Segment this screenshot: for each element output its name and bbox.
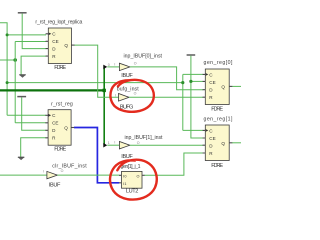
bus inp[1:0] horizontal — [0, 89, 104, 91]
wire inp[0] tap to IBUF — [107, 66, 119, 68]
svg-text:O: O — [137, 141, 140, 145]
svg-text:O: O — [61, 169, 64, 173]
svg-text:FDRE: FDRE — [54, 146, 66, 152]
node junction clk C1 — [6, 33, 9, 36]
flip-flop gen_reg[0] — [203, 69, 233, 105]
wire clk long horizontal — [7, 82, 183, 84]
svg-text:CE: CE — [52, 121, 58, 126]
svg-text:inp_IBUF[1]_inst: inp_IBUF[1]_inst — [125, 135, 164, 141]
bus tap arrow inp[0] — [103, 65, 107, 70]
wire Q of r_rst_reg (blue net) to I1 of LUT2 — [74, 128, 119, 183]
wire clk branch to C of r_rst_reg_lopt_replica — [7, 34, 46, 36]
wire R of r_rst_reg_lopt_replica to ground — [21, 56, 46, 75]
node bus junction — [103, 89, 106, 92]
wire Q of gen_reg[1] to right edge — [232, 142, 241, 144]
node junction clk long — [6, 81, 9, 84]
wire inp[1] tap to IBUF — [107, 144, 119, 146]
wire R of r_rst_reg to ground — [21, 138, 46, 157]
wire inp_IBUF[1] to D of gen_reg[1] — [130, 144, 203, 146]
svg-text:O: O — [137, 174, 140, 178]
node junction enable — [13, 58, 17, 62]
wire VCC3 vertical — [191, 56, 203, 138]
svg-text:I0: I0 — [123, 174, 126, 178]
wire clr entry left edge — [0, 174, 47, 176]
wire enable vertical — [14, 42, 16, 123]
wire Q of gen_reg[0] to right edge — [232, 85, 241, 87]
lut gen[1]_i_1 LUT2 — [119, 171, 145, 188]
node junction clk right — [181, 81, 184, 84]
wire clk to C of gen_reg[0] — [183, 73, 203, 75]
svg-text:CE: CE — [209, 80, 215, 85]
svg-text:I1: I1 — [123, 182, 126, 186]
svg-text:O: O — [134, 62, 137, 66]
svg-text:Q: Q — [64, 126, 68, 131]
buffer clr_IBUF_inst — [47, 171, 58, 178]
wire clk entry left edge — [0, 23, 7, 116]
wire VCC3 to CE of gen_reg[0] — [191, 80, 203, 82]
node junction VCC3 CE — [189, 80, 192, 83]
power VCC3 — [187, 54, 196, 56]
ground GND2 — [18, 157, 25, 160]
wire VCC1 to D of r_rst_reg_lopt_replica — [22, 14, 46, 49]
svg-text:I: I — [114, 141, 115, 145]
wire clk to C of gen_reg[1] — [183, 129, 203, 131]
svg-text:IBUF: IBUF — [121, 73, 133, 79]
flip-flop gen_reg[1] — [203, 125, 233, 161]
svg-text:I: I — [114, 62, 115, 66]
svg-text:IBUF: IBUF — [49, 182, 61, 188]
wire enable entry left edge — [0, 59, 15, 61]
annotation red circle around gen[1]_i_1 — [110, 160, 157, 200]
flip-flop r_rst_reg — [45, 110, 74, 146]
wire enable to CE of r_rst_reg_lopt_replica — [15, 41, 46, 43]
svg-text:1: 1 — [108, 141, 110, 145]
wire VCC2 to D of r_rst_reg — [22, 97, 46, 130]
power VCC1 — [18, 12, 27, 14]
svg-text:I: I — [115, 93, 116, 97]
svg-text:FDRE: FDRE — [211, 163, 223, 169]
ground GND1 — [19, 75, 26, 78]
buffer bufg_inst — [119, 94, 130, 102]
svg-text:0: 0 — [108, 63, 110, 67]
svg-text:FDRE: FDRE — [211, 107, 223, 113]
wire Q of r_rst_reg_lopt_replica to BUFG input — [74, 45, 119, 97]
wire clr_IBUF to I0 of LUT2 — [57, 174, 119, 176]
svg-text:clr_IBUF_inst: clr_IBUF_inst — [52, 163, 87, 169]
flip-flop r_rst_reg_lopt_replica — [46, 28, 75, 64]
svg-text:LUT2: LUT2 — [126, 189, 138, 195]
svg-text:r_rst_reg: r_rst_reg — [51, 101, 73, 107]
svg-text:I: I — [43, 170, 44, 174]
bus tap arrow inp[1] — [103, 143, 107, 148]
wire BUFG output to R of gen_reg[0] — [129, 96, 203, 98]
bus inp[1:0] vertical — [103, 67, 105, 146]
buffer inp_IBUF[0]_inst — [119, 63, 129, 70]
wire enable to CE of r_rst_reg — [15, 122, 46, 124]
wire inp_IBUF[0] to D of gen_reg[0] — [130, 67, 203, 90]
svg-text:Q: Q — [64, 43, 68, 48]
wire clk right vertical — [182, 74, 184, 130]
svg-text:Q: Q — [221, 84, 225, 89]
power VCC2 — [17, 96, 26, 98]
wire clk into C of r_rst_reg — [7, 114, 46, 116]
svg-text:Q: Q — [221, 141, 225, 146]
buffer inp_IBUF[1]_inst — [119, 142, 129, 149]
svg-text:O: O — [134, 91, 137, 95]
svg-text:inp_IBUF[0]_inst: inp_IBUF[0]_inst — [124, 53, 163, 59]
svg-text:gen_reg[0]: gen_reg[0] — [204, 60, 233, 66]
svg-text:gen_reg[1]: gen_reg[1] — [204, 116, 233, 122]
svg-text:r_rst_reg_lopt_replica: r_rst_reg_lopt_replica — [35, 19, 82, 25]
annotation red circle around bufg_inst — [110, 80, 153, 112]
svg-text:CE: CE — [209, 136, 215, 141]
svg-text:FDRE: FDRE — [54, 65, 66, 71]
svg-text:CE: CE — [52, 39, 58, 44]
svg-text:gen[1]_i_1: gen[1]_i_1 — [121, 164, 141, 170]
wire LUT2 O to R of gen_reg[1] — [144, 153, 203, 175]
